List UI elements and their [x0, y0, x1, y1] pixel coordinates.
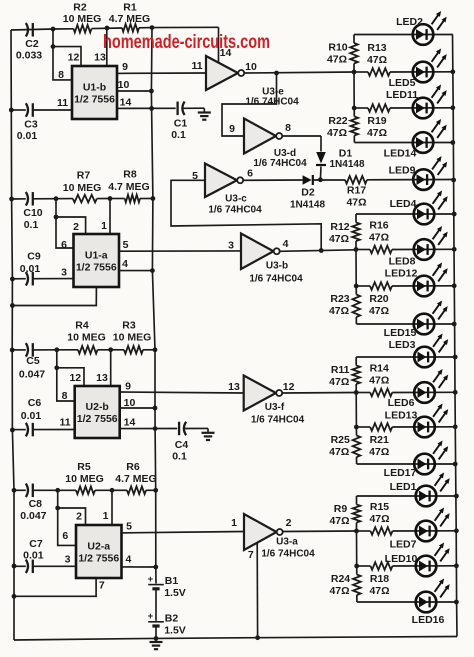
svg-text:3: 3: [61, 267, 67, 279]
svg-text:9: 9: [125, 381, 131, 393]
svg-text:10: 10: [245, 61, 257, 73]
wire LED row LED1: [357, 495, 457, 497]
wire U1-b pin10 to central bus: [117, 90, 151, 92]
wire U3-a pin7 ground drop to bottom rail: [256, 543, 258, 638]
svg-text:U2-a: U2-a: [87, 541, 110, 553]
svg-text:R13: R13: [367, 42, 386, 54]
svg-text:1N4148: 1N4148: [290, 200, 325, 211]
wire U2-a pin1 drop: [111, 490, 113, 525]
node R7/R8 rail junction: [108, 196, 113, 201]
node ladder junction row LED5: [352, 70, 357, 75]
svg-text:1/6 74HC04: 1/6 74HC04: [251, 415, 305, 426]
wire U2-b pin10 to central bus: [120, 407, 155, 409]
node ladder junction row LED8: [354, 247, 359, 252]
svg-text:12: 12: [68, 52, 80, 64]
svg-text:R10: R10: [328, 42, 347, 54]
svg-text:47Ω: 47Ω: [346, 197, 366, 209]
svg-text:2: 2: [76, 510, 82, 522]
resistor R5: [76, 487, 95, 495]
wire LED row LED4: [356, 213, 454, 215]
diode D1 1N4148: [316, 152, 326, 164]
resistor R12 vertical: [355, 214, 357, 223]
svg-text:47Ω: 47Ω: [329, 233, 349, 245]
LED LED10: [416, 556, 437, 577]
wire U1-a pin5 output to U3-b input: [119, 250, 241, 252]
op-amp U3-d inverter 74HC04: [244, 119, 276, 154]
capacitor C7 on U2-a pin3 row: [12, 564, 17, 569]
svg-text:47Ω: 47Ω: [369, 232, 389, 244]
svg-text:R25: R25: [331, 434, 350, 446]
svg-text:R20: R20: [369, 293, 388, 305]
node R4/R3 rail junction: [108, 347, 113, 352]
LED LED8: [414, 239, 435, 260]
svg-text:4.7 MEG: 4.7 MEG: [109, 13, 150, 25]
resistor R25 vertical: [355, 427, 357, 436]
svg-text:U3-c: U3-c: [225, 194, 247, 205]
svg-text:1/6 74HC04: 1/6 74HC04: [261, 548, 315, 559]
op-amp U3-b inverter 74HC04: [241, 234, 274, 270]
svg-text:R22: R22: [328, 115, 347, 127]
svg-text:11: 11: [59, 417, 70, 429]
svg-text:1.5V: 1.5V: [164, 625, 186, 637]
svg-text:47Ω: 47Ω: [369, 375, 389, 387]
svg-text:C5: C5: [26, 355, 40, 367]
op-amp U1-b timer half 7556: [72, 66, 117, 119]
svg-text:R16: R16: [369, 220, 388, 232]
svg-text:47Ω: 47Ω: [367, 127, 387, 139]
svg-text:C9: C9: [27, 251, 41, 263]
LED LED2: [413, 24, 434, 45]
svg-text:6: 6: [62, 530, 68, 542]
svg-text:0.1: 0.1: [171, 129, 186, 141]
svg-text:R14: R14: [370, 363, 389, 375]
wire LED row LED17: [357, 463, 456, 465]
svg-text:D2: D2: [301, 187, 315, 199]
svg-text:47Ω: 47Ω: [369, 446, 389, 458]
resistor R19 horizontal: [354, 107, 368, 109]
resistor R15 horizontal: [357, 530, 371, 532]
wire left supply bus (left edge vertical): [11, 30, 14, 640]
svg-text:1N4148: 1N4148: [329, 159, 364, 170]
svg-text:1: 1: [103, 510, 109, 522]
svg-text:R21: R21: [370, 434, 389, 446]
svg-text:5: 5: [126, 520, 132, 532]
svg-text:0.01: 0.01: [23, 550, 44, 562]
resistor R11 vertical: [355, 357, 357, 366]
svg-text:2: 2: [286, 517, 292, 529]
node U3-b output junction to feedback: [319, 248, 324, 253]
node R5 rail left junction: [55, 488, 60, 493]
svg-text:47Ω: 47Ω: [327, 54, 347, 66]
svg-text:10: 10: [124, 397, 136, 409]
node cathode bus junctions: [450, 69, 455, 74]
resistor R18 horizontal: [357, 565, 371, 567]
svg-text:LED11: LED11: [386, 89, 418, 101]
capacitor C1: [176, 102, 178, 116]
node cathode bus junctions: [454, 528, 459, 533]
node pin4/central bus: [150, 268, 155, 273]
wire ladder mid segment: [353, 72, 355, 108]
resistor R24 vertical: [356, 566, 358, 575]
capacitor C5 on R4 rail: [10, 348, 15, 353]
svg-text:U1-a: U1-a: [85, 250, 108, 262]
svg-text:R24: R24: [331, 573, 350, 585]
svg-text:U3-a: U3-a: [276, 537, 298, 548]
wire right cathode return bus: [453, 35, 458, 637]
wire U3-b output feedback to U3-c input: [171, 180, 321, 250]
diode D2 1N4148: [303, 175, 312, 185]
wire U3-d pin8 output to D1: [282, 135, 321, 137]
node pin4/central bus battery junction: [153, 565, 158, 570]
svg-text:R12: R12: [330, 221, 349, 233]
svg-text:LED7: LED7: [390, 539, 417, 551]
svg-text:R6: R6: [126, 461, 140, 473]
resistor R17: [314, 179, 345, 181]
wire ladder mid segment: [356, 531, 358, 566]
svg-text:1/6 74HC04: 1/6 74HC04: [253, 158, 307, 169]
svg-text:47Ω: 47Ω: [329, 376, 349, 388]
wire U1-b pin14 row to C1: [117, 107, 176, 109]
wire bottom ground rail: [14, 637, 457, 641]
wire ladder mid segment: [355, 393, 357, 428]
wire ladder mid segment: [355, 250, 357, 287]
node R4 rail left junction: [54, 347, 59, 352]
svg-text:1/2 7556: 1/2 7556: [76, 262, 117, 274]
resistor R7: [73, 195, 97, 203]
svg-text:11: 11: [191, 60, 202, 72]
svg-text:47Ω: 47Ω: [367, 54, 387, 66]
svg-text:10 MEG: 10 MEG: [67, 332, 106, 344]
svg-text:R17: R17: [347, 185, 366, 197]
node D1/D2/R17 junction: [318, 177, 323, 182]
node R8 right junction on central bus: [151, 196, 156, 201]
wire top supply rail: [11, 29, 74, 30]
svg-text:4.7 MEG: 4.7 MEG: [108, 181, 149, 193]
op-amp U1-a timer half 7556: [74, 234, 120, 287]
svg-text:LED6: LED6: [388, 397, 415, 409]
svg-text:LED2: LED2: [396, 16, 423, 28]
svg-text:1: 1: [231, 517, 237, 529]
svg-text:47Ω: 47Ω: [329, 585, 349, 597]
op-amp U3-e inverter 74HC04: [206, 56, 238, 90]
svg-text:47Ω: 47Ω: [329, 305, 349, 317]
svg-text:13: 13: [96, 372, 108, 384]
svg-text:14: 14: [220, 47, 232, 59]
wire U1-a pin2/pin6 loop: [54, 215, 59, 220]
battery B1 1.5V: [148, 584, 164, 586]
node R7 rail left junction: [54, 196, 59, 201]
svg-text:0.01: 0.01: [21, 410, 42, 422]
svg-text:+: +: [148, 574, 154, 585]
wire U1-a pin1 drop: [109, 199, 111, 235]
svg-text:1/2 7556: 1/2 7556: [77, 413, 118, 425]
svg-text:C3: C3: [24, 118, 38, 130]
resistor R6: [112, 489, 127, 491]
LED LED7: [416, 521, 437, 542]
LED LED5: [413, 62, 434, 83]
wire U3-c output to D2: [243, 179, 302, 181]
svg-text:R9: R9: [334, 503, 348, 515]
resistor R20 horizontal: [356, 285, 370, 287]
svg-text:1/2 7556: 1/2 7556: [78, 553, 119, 565]
capacitor C2: [26, 23, 28, 37]
capacitor C9 on U1-a pin3 row: [10, 277, 15, 282]
svg-text:7: 7: [248, 549, 254, 561]
node pin10/central bus: [149, 89, 154, 94]
svg-text:0.1: 0.1: [24, 219, 39, 231]
ground at C1: [198, 111, 211, 113]
svg-text:10 MEG: 10 MEG: [63, 13, 102, 25]
svg-text:47Ω: 47Ω: [369, 585, 389, 597]
svg-text:7: 7: [99, 580, 105, 592]
ground at battery: [155, 638, 157, 642]
resistor R10 vertical: [353, 35, 355, 44]
svg-text:LED1: LED1: [390, 481, 417, 493]
LED LED9: [413, 169, 434, 190]
svg-text:LED9: LED9: [389, 165, 416, 177]
node top-rail junction at R2 left: [51, 27, 56, 32]
svg-text:C4: C4: [175, 439, 189, 451]
node ladder junction row LED7: [354, 529, 359, 534]
svg-text:C8: C8: [29, 498, 43, 510]
svg-text:R2: R2: [73, 2, 87, 14]
wire U1-b pin9 output to U3-e input: [117, 72, 206, 74]
node ladder junction row LED12: [354, 284, 359, 289]
wire U2-a pin4 to central bus: [122, 566, 156, 568]
svg-text:1/6 74HC04: 1/6 74HC04: [245, 96, 299, 107]
wire R17 to LED9: [367, 179, 453, 181]
svg-text:U1-b: U1-b: [83, 82, 106, 94]
node U3-a pin7 on bottom rail: [255, 635, 260, 640]
LED LED16: [416, 592, 437, 613]
svg-text:LED10: LED10: [385, 553, 418, 565]
resistor R21 horizontal: [356, 426, 370, 428]
node ladder junction row LED10: [354, 564, 359, 569]
node battery on bottom rail: [154, 636, 159, 641]
svg-text:R15: R15: [370, 501, 389, 513]
node pin14/central bus: [153, 426, 158, 431]
svg-text:R5: R5: [77, 461, 91, 473]
capacitor C3 on U1-b pin11 row: [9, 108, 14, 113]
svg-text:4: 4: [125, 553, 131, 565]
resistor R14 horizontal: [356, 392, 370, 394]
LED LED4: [414, 204, 435, 225]
svg-text:3: 3: [228, 240, 234, 252]
resistor R3: [111, 349, 124, 351]
wire U2-b pin13 drop: [110, 350, 112, 386]
op-amp U3-f inverter 74HC04: [244, 376, 276, 411]
svg-text:C10: C10: [23, 207, 42, 219]
svg-text:R7: R7: [77, 170, 91, 182]
wire U3-b output to LED ladder 2: [280, 250, 356, 252]
svg-text:4.7 MEG: 4.7 MEG: [115, 473, 156, 485]
LED LED11: [413, 98, 434, 119]
svg-text:D1: D1: [339, 148, 353, 160]
resistor R23 vertical: [355, 286, 357, 295]
svg-text:47Ω: 47Ω: [327, 127, 347, 139]
resistor R1: [122, 24, 139, 32]
svg-text:0.047: 0.047: [19, 368, 45, 380]
node top-rail junction at R2/R1: [105, 26, 110, 31]
wire U1-a pin4 to central bus: [119, 270, 152, 272]
svg-text:13: 13: [94, 52, 106, 64]
wire D1 cathode to junction: [319, 167, 322, 180]
LED LED3: [414, 347, 435, 368]
svg-text:0.01: 0.01: [17, 130, 38, 142]
wire central V+ bus: [151, 28, 156, 584]
wire LED row LED3: [356, 356, 455, 358]
svg-text:LED13: LED13: [385, 409, 418, 421]
resistor R9 vertical: [356, 496, 358, 505]
node U2-a pin7 on left bus: [12, 594, 17, 599]
svg-text:LED3: LED3: [389, 339, 416, 351]
svg-text:LED4: LED4: [390, 198, 417, 210]
capacitor C8 on R5 rail: [12, 488, 17, 493]
svg-text:1/6 74HC04: 1/6 74HC04: [249, 274, 303, 285]
wire LED row LED15: [356, 323, 454, 325]
node ladder junction row LED13: [354, 425, 359, 430]
wire U2-b pin9 output to U3-f input: [120, 392, 244, 393]
LED LED13: [414, 417, 435, 438]
svg-text:14: 14: [124, 417, 136, 429]
capacitor C10 on R7 rail: [9, 197, 14, 202]
resistor R4: [78, 346, 98, 354]
wire U3-a output to LED ladder 4: [283, 530, 357, 533]
svg-text:47Ω: 47Ω: [369, 513, 389, 525]
svg-text:R1: R1: [123, 2, 137, 14]
wire U3-e pin 14 VCC drop: [218, 27, 220, 63]
svg-text:LED15: LED15: [384, 327, 417, 339]
op-amp U3-a inverter 74HC04: [244, 514, 277, 550]
svg-text:1: 1: [101, 220, 107, 232]
svg-text:8: 8: [62, 390, 68, 402]
svg-text:U3-f: U3-f: [265, 402, 285, 413]
node R6 right junction on central bus: [153, 488, 158, 493]
node cathode bus junctions: [452, 247, 457, 252]
svg-text:8: 8: [285, 122, 291, 134]
wire U3-e output to LED ladder 1: [244, 72, 354, 73]
svg-text:1.5V: 1.5V: [164, 587, 186, 599]
svg-text:47Ω: 47Ω: [329, 515, 349, 527]
svg-text:13: 13: [228, 381, 240, 393]
wire U2-a pin7 ground to left bus: [14, 578, 96, 596]
LED LED6: [414, 382, 435, 403]
op-amp U3-c inverter 74HC04: [205, 164, 237, 198]
wire U2-b pin14 row to C4: [120, 428, 178, 430]
node R3 right junction on central bus: [153, 347, 158, 352]
svg-text:R3: R3: [122, 320, 136, 332]
wire U2-b pin12/pin8 loop: [54, 365, 59, 370]
svg-text:C2: C2: [25, 38, 39, 50]
svg-text:LED12: LED12: [385, 268, 418, 280]
LED LED1: [416, 486, 437, 507]
wire U1-b pin13 drop from rail: [106, 28, 108, 66]
capacitor C4: [178, 422, 180, 436]
svg-text:R18: R18: [370, 573, 389, 585]
svg-text:12: 12: [283, 381, 295, 393]
svg-text:R23: R23: [330, 293, 349, 305]
node U1-a ground pin on left bus: [10, 303, 15, 308]
svg-text:6: 6: [61, 239, 67, 251]
svg-text:0.1: 0.1: [172, 450, 187, 462]
svg-text:0.01: 0.01: [20, 263, 41, 275]
svg-text:LED17: LED17: [384, 467, 417, 479]
wire R5 rail segment: [58, 489, 76, 491]
svg-text:10 MEG: 10 MEG: [63, 182, 102, 194]
svg-text:4: 4: [283, 238, 289, 250]
node cathode bus junctions: [453, 390, 458, 395]
svg-text:9: 9: [122, 61, 128, 73]
svg-text:C6: C6: [28, 397, 42, 409]
svg-text:1/2 7556: 1/2 7556: [74, 94, 115, 106]
svg-text:LED14: LED14: [384, 148, 417, 160]
svg-text:9: 9: [229, 123, 235, 135]
node top-rail junction at central bus: [150, 25, 155, 30]
resistor R13 horizontal: [354, 71, 368, 73]
wire U1-a ground pin to left bus: [12, 287, 96, 306]
wire R4 rail segment: [57, 349, 78, 351]
battery B2 1.5V: [148, 621, 164, 623]
svg-text:R11: R11: [331, 364, 350, 376]
svg-text:47Ω: 47Ω: [369, 305, 389, 317]
node LED9 cathode on right bus: [451, 178, 456, 183]
svg-text:LED5: LED5: [389, 77, 416, 89]
op-amp U2-a timer half 7556: [76, 525, 122, 578]
wire R7 rail segment: [56, 198, 73, 200]
svg-text:U2-b: U2-b: [86, 401, 109, 413]
svg-text:U3-b: U3-b: [266, 261, 288, 272]
svg-text:B1: B1: [165, 575, 179, 587]
wire C4 to ground: [185, 427, 209, 429]
node R5/R6 rail junction: [110, 488, 115, 493]
capacitor C6 on U2-b pin11 row: [10, 428, 15, 433]
svg-text:R19: R19: [367, 115, 386, 127]
svg-text:14: 14: [120, 97, 132, 109]
node U3-e output junction: [274, 71, 279, 76]
svg-text:homemade-circuits.com: homemade-circuits.com: [103, 31, 270, 53]
node ladder junction row LED11: [352, 106, 357, 111]
svg-text:LED16: LED16: [412, 614, 445, 626]
resistor R8: [110, 198, 125, 200]
wire LED row LED16: [357, 601, 457, 603]
wire U3-e output dogleg down to U3-d input: [222, 73, 277, 136]
svg-text:47Ω: 47Ω: [329, 446, 349, 458]
svg-text:+: +: [148, 611, 154, 622]
LED LED17: [414, 454, 435, 475]
LED LED15: [414, 314, 435, 335]
node pin10/central bus: [153, 406, 158, 411]
wire U2-a pin2/pin6 loop: [55, 506, 60, 511]
ground at C4: [202, 432, 215, 434]
svg-text:4: 4: [122, 258, 128, 270]
node pin14/central bus: [149, 106, 154, 111]
svg-text:C1: C1: [174, 117, 188, 129]
resistor R22 vertical: [353, 108, 355, 117]
LED LED14: [413, 132, 434, 153]
wire U3-f output to LED ladder 3: [282, 392, 356, 395]
svg-text:R8: R8: [123, 169, 137, 181]
wire U1-b pin12/pin8 loop: [51, 44, 56, 49]
svg-text:5: 5: [123, 239, 129, 251]
svg-text:B2: B2: [165, 612, 179, 624]
svg-text:LED8: LED8: [389, 256, 416, 268]
svg-text:0.033: 0.033: [16, 50, 42, 62]
svg-text:2: 2: [73, 221, 79, 233]
LED LED12: [414, 276, 435, 297]
wire LED row LED14: [354, 142, 452, 144]
svg-text:0.047: 0.047: [20, 510, 46, 522]
resistor R2: [74, 25, 92, 33]
